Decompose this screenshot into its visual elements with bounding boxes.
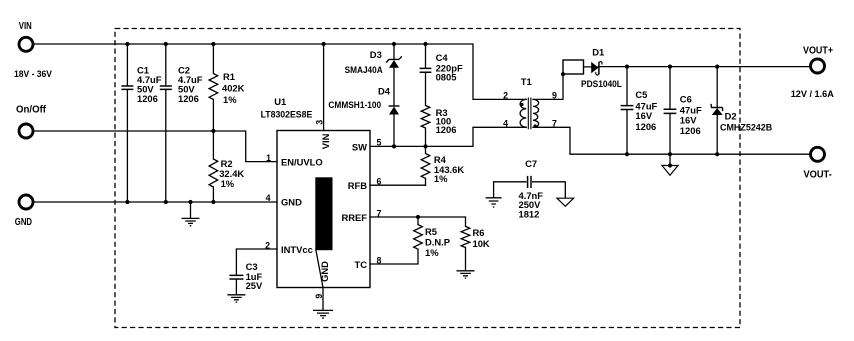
svg-text:CMMSH1-100: CMMSH1-100 <box>328 99 381 110</box>
svg-text:PDS1040L: PDS1040L <box>581 78 622 89</box>
svg-text:SMAJ40A: SMAJ40A <box>345 64 383 75</box>
svg-text:U1: U1 <box>274 96 286 107</box>
svg-text:6: 6 <box>377 177 382 187</box>
svg-text:9: 9 <box>552 91 557 101</box>
svg-text:C6: C6 <box>680 93 692 104</box>
svg-text:D1: D1 <box>592 47 604 58</box>
svg-text:R1: R1 <box>223 71 235 82</box>
svg-text:GND: GND <box>15 217 32 228</box>
svg-text:SW: SW <box>352 141 367 152</box>
svg-text:RREF: RREF <box>341 212 367 223</box>
svg-text:1206: 1206 <box>137 93 158 104</box>
svg-text:25V: 25V <box>246 280 263 291</box>
svg-text:INTVcc: INTVcc <box>281 244 313 255</box>
svg-text:LT8302ES8E: LT8302ES8E <box>261 109 313 120</box>
svg-text:5: 5 <box>377 138 382 148</box>
svg-text:D3: D3 <box>370 49 382 60</box>
svg-text:VOUT+: VOUT+ <box>803 46 833 57</box>
svg-text:R6: R6 <box>473 227 485 238</box>
svg-text:D.N.P: D.N.P <box>425 237 450 248</box>
svg-text:R5: R5 <box>425 226 437 237</box>
svg-text:C5: C5 <box>635 89 647 100</box>
svg-text:1%: 1% <box>434 173 448 184</box>
svg-text:TC: TC <box>355 259 368 270</box>
svg-text:3: 3 <box>315 120 325 125</box>
svg-text:D4: D4 <box>378 85 391 96</box>
svg-text:1%: 1% <box>223 94 237 105</box>
svg-text:16V: 16V <box>680 114 697 125</box>
svg-text:On/Off: On/Off <box>16 105 47 116</box>
svg-text:VOUT-: VOUT- <box>804 170 832 181</box>
svg-text:C7: C7 <box>525 158 537 169</box>
svg-text:D2: D2 <box>725 111 737 122</box>
svg-text:16V: 16V <box>635 110 652 121</box>
svg-text:GND: GND <box>281 196 302 207</box>
svg-text:18V - 36V: 18V - 36V <box>14 68 53 79</box>
svg-text:1%: 1% <box>425 247 439 258</box>
svg-text:VIN: VIN <box>19 21 32 32</box>
svg-text:T1: T1 <box>521 76 532 87</box>
svg-text:1: 1 <box>266 153 271 163</box>
svg-text:1206: 1206 <box>680 125 701 136</box>
svg-text:EN/UVLO: EN/UVLO <box>281 156 323 167</box>
svg-text:402K: 402K <box>222 83 245 94</box>
svg-text:1206: 1206 <box>635 121 656 132</box>
svg-text:1%: 1% <box>221 178 235 189</box>
svg-text:C4: C4 <box>436 52 449 63</box>
svg-text:GND: GND <box>319 261 330 282</box>
svg-text:12V / 1.6A: 12V / 1.6A <box>791 88 834 99</box>
svg-text:10K: 10K <box>473 238 490 249</box>
svg-text:CMHZ5242B: CMHZ5242B <box>720 121 772 132</box>
svg-text:9: 9 <box>314 294 324 299</box>
svg-text:RFB: RFB <box>348 180 367 191</box>
svg-text:1206: 1206 <box>436 124 457 135</box>
svg-text:7: 7 <box>552 119 557 129</box>
svg-text:4: 4 <box>503 119 508 129</box>
svg-text:7: 7 <box>377 208 382 218</box>
svg-text:4: 4 <box>266 193 271 203</box>
svg-text:1206: 1206 <box>178 93 199 104</box>
svg-text:1812: 1812 <box>519 209 540 220</box>
svg-text:0805: 0805 <box>436 72 457 83</box>
svg-text:VIN: VIN <box>320 133 331 149</box>
svg-text:2: 2 <box>265 240 270 250</box>
svg-text:2: 2 <box>503 91 508 101</box>
svg-text:8: 8 <box>377 255 382 265</box>
